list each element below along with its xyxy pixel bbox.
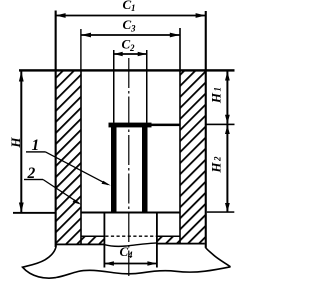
tenon left edge / C4 extension xyxy=(104,213,106,268)
base plate band right hatched xyxy=(157,236,180,243)
extension H2 bottom xyxy=(207,211,235,213)
tenon right edge / C4 extension xyxy=(156,213,158,268)
break line across tenon xyxy=(104,243,157,246)
base plate band left hatched xyxy=(81,236,104,244)
dimension C1 line xyxy=(56,15,206,17)
break line bottom xyxy=(56,267,231,278)
bore bottom shoulder xyxy=(81,212,180,214)
callout 2 underline xyxy=(24,179,43,180)
svg-text:H: H xyxy=(8,137,23,149)
arrow C4 left xyxy=(104,261,114,266)
svg-text:2: 2 xyxy=(213,156,223,162)
arrow H1 bottom xyxy=(225,115,230,124)
bushing wall right solid xyxy=(142,127,148,213)
dimension C2 line xyxy=(114,53,147,55)
callout 1 arrowhead xyxy=(102,181,111,186)
bushing flange line to bore wall xyxy=(148,124,181,127)
centerline xyxy=(128,58,130,276)
extension H1 H2 junction xyxy=(206,124,235,126)
arrow H1 top xyxy=(225,72,230,81)
svg-text:1: 1 xyxy=(131,3,136,13)
label H1 xyxy=(208,87,223,104)
base plate top left solid xyxy=(81,236,104,238)
extension C3 left xyxy=(80,29,81,70)
svg-text:1: 1 xyxy=(213,87,223,92)
svg-text:3: 3 xyxy=(130,24,136,34)
svg-text:H: H xyxy=(208,162,223,174)
arrow H bottom xyxy=(19,203,24,213)
dimension H line xyxy=(20,72,22,213)
dimension H2 line xyxy=(226,125,228,212)
body right bore edge xyxy=(179,28,181,244)
body left bore edge xyxy=(80,70,82,244)
wall right hatched section of body xyxy=(180,70,206,244)
arrow C2 left xyxy=(114,52,123,56)
callout 1 leader xyxy=(46,152,109,185)
arrow H2 bottom xyxy=(225,203,230,212)
body bottom right xyxy=(157,243,205,245)
label H2 xyxy=(208,156,223,174)
extension H bottom xyxy=(13,212,56,214)
dimension C3 line xyxy=(81,34,180,36)
dimension H1 line xyxy=(226,72,228,124)
hole C2 left edge with extension xyxy=(113,50,115,123)
arrow C3 right xyxy=(170,33,180,38)
base plate top right solid xyxy=(157,236,180,238)
arrow C1 left xyxy=(56,13,66,18)
bushing wall left solid xyxy=(111,127,117,213)
arrow H2 top xyxy=(225,125,230,134)
body right outer edge xyxy=(205,11,207,248)
break line right xyxy=(206,248,231,267)
hole C2 right edge with extension xyxy=(146,50,148,123)
base plate top hidden dashed xyxy=(105,235,156,237)
arrow C3 left xyxy=(81,33,91,38)
dimension C4 line xyxy=(104,263,156,265)
arrow H top xyxy=(19,72,24,82)
arrow C4 right xyxy=(147,261,157,266)
callout 2 leader xyxy=(43,180,79,204)
arrow C1 right xyxy=(196,13,206,18)
body top edge with extension line xyxy=(19,69,235,71)
wall left hatched section of body xyxy=(55,70,81,244)
callout 2 arrowhead xyxy=(73,199,82,204)
bushing cap solid xyxy=(109,123,152,128)
svg-text:2: 2 xyxy=(129,43,135,53)
svg-text:H: H xyxy=(208,92,223,104)
body bottom left xyxy=(55,244,105,246)
arrow C2 right xyxy=(138,52,147,56)
svg-text:4: 4 xyxy=(127,250,133,260)
body left outer edge xyxy=(55,11,57,248)
callout 1 underline xyxy=(26,151,46,152)
break line left xyxy=(23,244,57,278)
